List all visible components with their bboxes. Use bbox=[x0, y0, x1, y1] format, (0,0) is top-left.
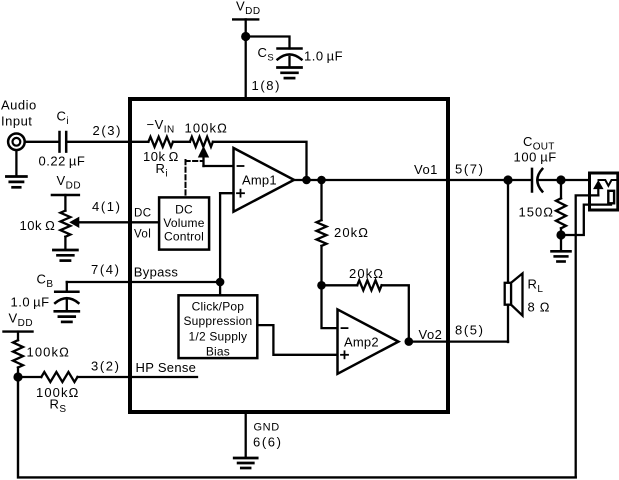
wire input to Ci bbox=[25, 141, 58, 143]
jack tip contact (V notch) bbox=[599, 180, 617, 186]
label VDD HP bbox=[9, 311, 34, 330]
svg-text:1.0 µF: 1.0 µF bbox=[304, 49, 343, 64]
wire Vo1 to speaker bbox=[507, 180, 509, 283]
node 20k junction bbox=[317, 281, 326, 290]
VDD supply symbol (pot) bbox=[52, 194, 79, 196]
label 100k pullup bbox=[27, 345, 70, 360]
svg-text:1/2 Supply: 1/2 Supply bbox=[189, 329, 248, 343]
label 0.22uF bbox=[39, 154, 86, 169]
label Ri bbox=[156, 161, 169, 180]
ground (GND pin) bbox=[234, 458, 257, 468]
ground (pot) bbox=[53, 250, 77, 261]
resistor 20k vertical bbox=[317, 220, 327, 246]
label RS bbox=[50, 397, 67, 416]
ground (150ohm) bbox=[552, 251, 571, 261]
label HP Sense bbox=[136, 360, 197, 375]
label Amp2 bbox=[344, 335, 379, 350]
label 20k vertical bbox=[334, 225, 369, 240]
svg-text:1(8): 1(8) bbox=[252, 78, 282, 93]
VDD supply symbol (top) bbox=[233, 18, 258, 20]
wire Vo2 bbox=[409, 340, 508, 342]
jack sleeve contact bbox=[608, 191, 614, 204]
label Bypass bbox=[134, 265, 179, 280]
wire VDD to 100k bbox=[17, 332, 19, 341]
op-amp Amp1 bbox=[234, 148, 295, 212]
svg-text:Suppression: Suppression bbox=[183, 314, 252, 328]
svg-text:Click/Pop: Click/Pop bbox=[192, 300, 245, 314]
label Amp1 bbox=[242, 173, 277, 188]
label Vo1 bbox=[414, 162, 438, 177]
wire bypass into Amp1 plus bbox=[220, 192, 233, 194]
wire VDD to pot bbox=[64, 195, 66, 211]
wire to CS bbox=[246, 37, 290, 49]
pin label 2(3) bbox=[93, 123, 123, 138]
pin label 7(4) bbox=[91, 262, 121, 277]
wire ground return rail bbox=[18, 377, 576, 477]
wire junction to RS bbox=[18, 376, 41, 378]
wire RS to HP sense pin bbox=[78, 376, 198, 378]
speaker RL bbox=[505, 273, 523, 315]
svg-text:GND: GND bbox=[254, 422, 280, 434]
wire Ri to pot bbox=[173, 141, 190, 143]
svg-text:8: 8 bbox=[528, 300, 536, 315]
wire junction to 20k feedback bbox=[322, 284, 358, 286]
headphone jack J2 bbox=[590, 173, 618, 210]
capacitor Ci bbox=[60, 132, 67, 152]
resistor 20k feedback bbox=[357, 280, 381, 290]
svg-text:2(3): 2(3) bbox=[93, 123, 123, 138]
label GND bbox=[254, 422, 280, 434]
resistor 100k pullup bbox=[13, 340, 23, 367]
pin label 5(7) bbox=[455, 162, 485, 177]
node bypass junction bbox=[216, 278, 225, 287]
svg-text:10k Ω: 10k Ω bbox=[20, 218, 56, 233]
connector J1 audio input bbox=[8, 134, 25, 151]
node HP sense junction bbox=[13, 372, 22, 381]
label 150ohm bbox=[519, 204, 554, 219]
label CS bbox=[258, 45, 275, 64]
svg-text:Bypass: Bypass bbox=[134, 265, 179, 280]
label 20k feedback bbox=[349, 266, 384, 281]
wire Amp1 noninv to Click/Pop bbox=[219, 193, 221, 295]
label 1.0uF (CS) bbox=[304, 49, 343, 64]
svg-text:8(5): 8(5) bbox=[455, 323, 485, 338]
svg-text:Vol: Vol bbox=[134, 229, 151, 241]
wire connector to ground bbox=[15, 150, 17, 176]
node VDD-CS junction bbox=[241, 32, 250, 41]
pin label 4(1) bbox=[92, 199, 122, 214]
label 100k RS bbox=[36, 385, 79, 400]
svg-text:Amp2: Amp2 bbox=[344, 335, 379, 350]
svg-text:Ω: Ω bbox=[540, 300, 550, 315]
label Audio Input bbox=[1, 98, 37, 129]
wire 100k to junction bbox=[17, 368, 19, 378]
label COUT bbox=[523, 134, 555, 153]
ground (input) bbox=[6, 177, 26, 188]
pin label 1(8) bbox=[252, 78, 282, 93]
label Vo2 bbox=[419, 327, 443, 342]
svg-text:DC: DC bbox=[175, 203, 193, 217]
svg-text:100kΩ: 100kΩ bbox=[185, 121, 228, 136]
wire speaker to Vo2 bbox=[507, 305, 509, 342]
label RL bbox=[528, 277, 544, 296]
capacitor CS bbox=[278, 49, 302, 68]
IC outline U1 bbox=[130, 99, 448, 412]
wire to COUT bbox=[508, 179, 531, 181]
wire COUT to jack bbox=[539, 179, 606, 181]
dashed wiper control link bbox=[186, 160, 204, 197]
svg-text:5(7): 5(7) bbox=[455, 162, 485, 177]
jack plug arrow bbox=[594, 181, 603, 195]
ground (CS) bbox=[278, 68, 302, 79]
resistor RS 100k bbox=[41, 372, 77, 382]
block DC Volume Control bbox=[159, 197, 209, 249]
op-amp Amp2 bbox=[338, 309, 399, 373]
label 100k (pot) bbox=[185, 121, 228, 136]
capacitor COUT bbox=[532, 169, 542, 192]
wire wiper to DC Volume Control bbox=[78, 221, 159, 223]
label 8ohm bbox=[528, 300, 551, 315]
pin label 3(2) bbox=[91, 359, 121, 374]
wire 150 to gnd bbox=[560, 228, 562, 250]
svg-text:7(4): 7(4) bbox=[91, 262, 121, 277]
label 100uF bbox=[514, 150, 557, 165]
wire 20k feedback to Vo2 bbox=[382, 285, 409, 341]
svg-text:Input: Input bbox=[1, 114, 32, 129]
wire Ci to Ri bbox=[68, 141, 149, 143]
label Ci bbox=[57, 109, 70, 128]
wire wiper to Amp1 inverting input bbox=[204, 165, 234, 167]
wire pot to ground bbox=[64, 237, 66, 250]
wire Vo1 to 20k bbox=[320, 180, 322, 220]
wire Click/Pop to Amp2 plus bbox=[257, 325, 337, 355]
label 10k (Ri) bbox=[143, 149, 179, 164]
pin label 6(6) bbox=[253, 435, 283, 450]
svg-text:100kΩ: 100kΩ bbox=[27, 345, 70, 360]
svg-text:20kΩ: 20kΩ bbox=[349, 266, 384, 281]
potentiometer 10k vertical bbox=[60, 211, 70, 237]
wiper arrow (10k pot) bbox=[70, 218, 79, 228]
svg-text:4(1): 4(1) bbox=[92, 199, 122, 214]
svg-text:Vo1: Vo1 bbox=[414, 162, 438, 177]
label CB bbox=[37, 272, 54, 291]
wire junction to Amp2 inverting bbox=[322, 285, 338, 328]
label VDD top bbox=[236, 0, 261, 17]
wire 20k to junction bbox=[320, 246, 322, 285]
wire jack ring return bbox=[576, 195, 599, 477]
svg-text:Amp1: Amp1 bbox=[242, 173, 277, 188]
wire to 150ohm bbox=[560, 180, 562, 198]
svg-text:1.0 µF: 1.0 µF bbox=[11, 295, 50, 310]
block Click/Pop Suppression bbox=[179, 295, 258, 358]
svg-text:3(2): 3(2) bbox=[91, 359, 121, 374]
ground (CB) bbox=[55, 311, 79, 322]
label -VIN bbox=[147, 117, 175, 136]
node Vo1-speaker junction bbox=[503, 175, 512, 184]
node Amp1 output bbox=[302, 176, 311, 185]
wire GND pin bbox=[245, 412, 247, 458]
svg-text:HP Sense: HP Sense bbox=[136, 360, 197, 375]
label DC Vol pin bbox=[134, 208, 151, 241]
wire VDD rail to pin 1 bbox=[245, 19, 247, 99]
label 1.0uF (CB) bbox=[11, 295, 50, 310]
label 10k (pot DC vol) bbox=[20, 218, 56, 233]
label VDD pot bbox=[57, 173, 82, 192]
resistor Ri 10k bbox=[148, 137, 173, 147]
resistor 150ohm bbox=[556, 198, 566, 228]
wiper arrow (100k pot) bbox=[199, 147, 209, 166]
capacitor CB bbox=[55, 282, 78, 311]
svg-text:100 µF: 100 µF bbox=[514, 150, 557, 165]
node 20k tap bbox=[317, 176, 326, 185]
wire feedback top bbox=[213, 142, 307, 180]
svg-text:150Ω: 150Ω bbox=[519, 204, 554, 219]
node COUT-150 junction bbox=[556, 175, 565, 184]
svg-text:Control: Control bbox=[164, 230, 204, 244]
node 150-jack-sleeve junction bbox=[556, 230, 565, 239]
svg-text:20kΩ: 20kΩ bbox=[334, 225, 369, 240]
svg-text:DC: DC bbox=[134, 208, 151, 220]
potentiometer 100k bbox=[190, 137, 213, 147]
svg-text:0.22 µF: 0.22 µF bbox=[39, 154, 86, 169]
wire bypass bbox=[67, 281, 220, 283]
VDD supply symbol (HP sense) bbox=[4, 330, 33, 332]
wire jack sleeve to 150 junction bbox=[561, 205, 611, 235]
svg-text:Bias: Bias bbox=[206, 344, 230, 358]
svg-text:Audio: Audio bbox=[1, 98, 37, 113]
pin label 8(5) bbox=[455, 323, 485, 338]
svg-text:6(6): 6(6) bbox=[253, 435, 283, 450]
node Amp2 output bbox=[405, 337, 414, 346]
wire Vo1 bbox=[294, 179, 508, 181]
svg-text:Volume: Volume bbox=[163, 216, 204, 230]
svg-text:Vo2: Vo2 bbox=[419, 327, 443, 342]
